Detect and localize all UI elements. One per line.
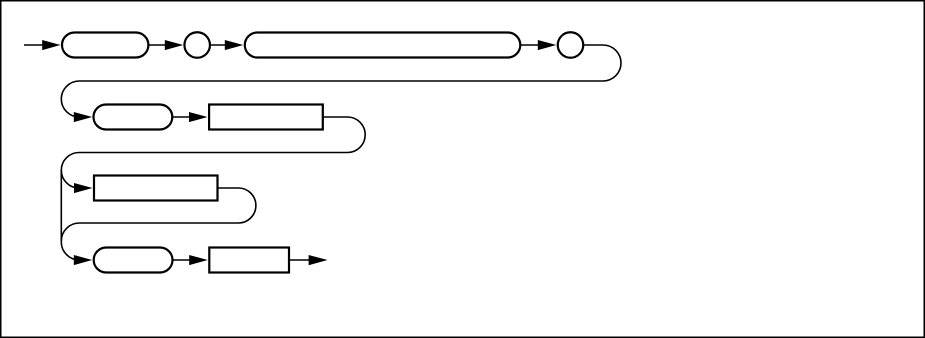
terminal T2 (pill) — [94, 105, 173, 130]
terminal T1 (pill) — [62, 33, 148, 58]
arrow into box R3 — [189, 255, 208, 265]
box R3 (rectangle) — [209, 248, 289, 273]
arrow into terminal T4 row4 — [74, 255, 92, 265]
box R2 (rectangle) — [94, 176, 218, 201]
wire T1 to arrow — [148, 44, 166, 46]
wire wrap row3 return joining rail — [61, 188, 256, 241]
wire T2 to arrow — [172, 116, 190, 118]
wire start line row1 — [24, 44, 44, 46]
arrow into box R2 row3 — [74, 183, 93, 193]
wire branch from rail into row3 — [61, 170, 81, 188]
node circle C2 — [558, 32, 584, 58]
arrow into box R1 — [189, 112, 208, 122]
terminal T4 (pill) — [94, 248, 173, 273]
arrow into node circle C1 — [165, 40, 184, 50]
wire wrap row1 to row2 — [61, 45, 621, 117]
wire exit line row4 — [289, 259, 310, 261]
arrow into terminal T3 — [225, 40, 244, 50]
wire T4 to arrow — [173, 259, 191, 261]
arrow into node circle C2 — [538, 40, 557, 50]
arrow into terminal T2 row2 — [74, 112, 92, 122]
terminal T3 long pill — [245, 33, 521, 58]
wire T3 to arrow — [520, 44, 539, 46]
box R1 (rectangle) — [209, 105, 323, 130]
wire wrap row2 to left rail and down to row4 — [61, 117, 365, 260]
arrow diagram exit — [309, 255, 328, 265]
wire C1 to arrow — [210, 44, 227, 46]
node circle C1 — [184, 32, 210, 58]
arrow into terminal T1 — [42, 40, 60, 50]
